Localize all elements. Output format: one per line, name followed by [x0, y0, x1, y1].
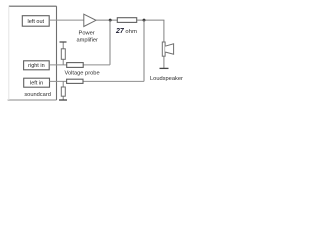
wire resistor to loudspeaker corner: [137, 19, 165, 21]
node B junction dot: [143, 19, 146, 22]
terminal lower probe tip: [59, 99, 67, 101]
wire upper probe stem: [62, 42, 64, 65]
jack right in: [24, 61, 50, 70]
terminal loudspeaker return: [160, 67, 169, 69]
resistor upper probe (horizontal): [67, 63, 84, 68]
jack left in: [24, 78, 50, 87]
svg-text:left in: left in: [30, 81, 43, 87]
wire loudspeaker bottom: [163, 56, 165, 68]
wire right-in probe rail: [49, 64, 110, 66]
svg-text:right in: right in: [28, 63, 45, 69]
svg-text:Power: Power: [79, 30, 95, 36]
wire node B down to lower probe corner: [143, 20, 145, 81]
loudspeaker: [162, 42, 173, 56]
resistor 27 ohm: [117, 18, 136, 23]
jack left out: [22, 16, 49, 27]
soundcard box: [8, 6, 57, 100]
label Power amplifier: [76, 30, 98, 43]
wire left-out to amplifier input: [49, 19, 84, 21]
wire node A down to upper probe corner: [109, 20, 111, 65]
wire left-in probe rail: [50, 80, 145, 82]
resistor lower probe (horizontal): [67, 79, 83, 83]
svg-text:left out: left out: [28, 19, 45, 25]
svg-text:amplifier: amplifier: [76, 38, 98, 44]
resistor lower probe (vertical): [61, 87, 65, 96]
node A junction dot: [109, 19, 112, 22]
svg-text:Loudspeaker: Loudspeaker: [150, 76, 183, 82]
wire down to loudspeaker: [163, 20, 165, 42]
resistor upper probe (vertical): [61, 49, 65, 60]
svg-text:27ohm: 27ohm: [115, 28, 137, 35]
svg-text:soundcard: soundcard: [24, 92, 51, 98]
svg-text:Voltage probe: Voltage probe: [65, 71, 100, 77]
terminal upper probe tip: [60, 41, 67, 43]
op-amp power amplifier: [84, 14, 96, 26]
wire lower probe stem: [62, 81, 64, 100]
wire amplifier output to resistor: [96, 19, 117, 21]
